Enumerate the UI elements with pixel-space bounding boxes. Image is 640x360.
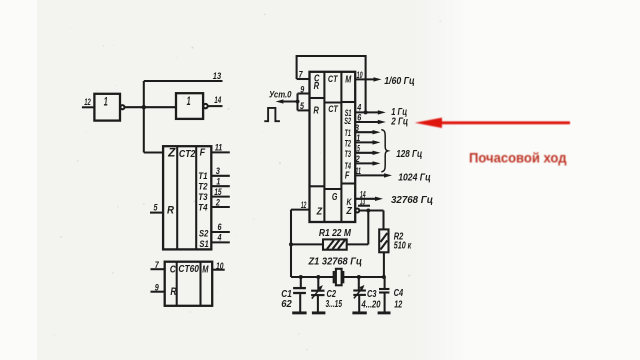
counter DD2 CT2 bbox=[163, 146, 211, 250]
wire bbox=[367, 211, 369, 245]
svg-text:12: 12 bbox=[84, 97, 91, 107]
svg-text:CT2: CT2 bbox=[179, 149, 196, 160]
svg-text:3: 3 bbox=[216, 165, 221, 176]
svg-text:Z: Z bbox=[346, 206, 353, 217]
svg-text:R: R bbox=[314, 81, 320, 92]
pin 4 output 1 Hz bbox=[355, 102, 407, 117]
resistor R2 bbox=[379, 229, 412, 277]
pin 12 bbox=[82, 97, 95, 107]
svg-text:T2: T2 bbox=[198, 182, 208, 193]
feedback wire bbox=[297, 56, 366, 112]
Ust.0 input arrow bbox=[269, 89, 300, 103]
svg-text:14: 14 bbox=[214, 95, 221, 105]
svg-text:CT60: CT60 bbox=[178, 264, 199, 275]
svg-text:T4: T4 bbox=[345, 161, 352, 171]
svg-text:T3: T3 bbox=[198, 192, 208, 203]
pin 2 output bbox=[355, 154, 380, 166]
wire bbox=[144, 151, 163, 153]
pin 15 output bbox=[354, 143, 380, 155]
svg-text:G: G bbox=[332, 192, 338, 203]
annotation red arrow bbox=[415, 118, 570, 128]
svg-text:6: 6 bbox=[218, 221, 223, 232]
pin 15 bbox=[211, 186, 230, 197]
svg-text:4...20: 4...20 bbox=[361, 299, 381, 310]
svg-text:M: M bbox=[202, 264, 209, 275]
pin 9 bbox=[298, 84, 310, 94]
svg-text:10: 10 bbox=[216, 260, 224, 271]
pin 7 bbox=[297, 70, 310, 80]
svg-text:7: 7 bbox=[155, 259, 160, 270]
svg-text:10: 10 bbox=[357, 70, 363, 80]
wire bbox=[291, 276, 334, 278]
pin 14 bbox=[208, 95, 223, 106]
svg-text:Z: Z bbox=[316, 207, 323, 218]
svg-text:Z1 32768 Гц: Z1 32768 Гц bbox=[308, 257, 363, 268]
pin 13 bbox=[144, 71, 223, 81]
svg-text:2: 2 bbox=[215, 197, 220, 208]
wire bbox=[125, 106, 177, 108]
inverter DD1.2 bbox=[176, 93, 203, 119]
svg-text:R: R bbox=[167, 205, 174, 217]
brace 128 Hz group bbox=[381, 130, 422, 172]
svg-text:C: C bbox=[170, 264, 176, 275]
svg-text:1024 Гц: 1024 Гц bbox=[398, 172, 431, 183]
svg-text:32768 Гц: 32768 Гц bbox=[391, 195, 433, 206]
svg-text:S2: S2 bbox=[344, 116, 351, 126]
svg-text:11: 11 bbox=[355, 166, 361, 176]
svg-text:4: 4 bbox=[356, 102, 361, 112]
pin 3 output bbox=[355, 123, 381, 135]
capacitor C1 bbox=[281, 277, 306, 313]
wire bbox=[143, 81, 145, 153]
pin 2 bbox=[211, 197, 230, 208]
pin 4 bbox=[211, 231, 230, 242]
svg-text:CT: CT bbox=[328, 104, 338, 115]
junction node bbox=[366, 209, 370, 213]
svg-text:CT: CT bbox=[328, 74, 338, 85]
pin 6 output 2 Hz bbox=[355, 112, 408, 127]
svg-text:1: 1 bbox=[216, 176, 220, 187]
pin 10 bbox=[212, 260, 225, 271]
wire bbox=[382, 211, 384, 230]
junction node bbox=[316, 275, 320, 279]
pin 6 bbox=[211, 221, 230, 232]
svg-text:R1 22 М: R1 22 М bbox=[319, 228, 351, 239]
pin 10 output 1/60 Hz bbox=[355, 70, 415, 87]
svg-text:6: 6 bbox=[357, 112, 362, 122]
svg-text:T3: T3 bbox=[345, 149, 352, 159]
inverter DD1.1 output bubble bbox=[120, 105, 124, 109]
svg-text:9: 9 bbox=[300, 84, 304, 94]
svg-text:1: 1 bbox=[104, 97, 108, 109]
svg-text:S1: S1 bbox=[199, 239, 208, 250]
svg-text:F: F bbox=[345, 170, 350, 181]
svg-text:4: 4 bbox=[217, 231, 222, 242]
pin 14 output 32768 Hz bbox=[355, 189, 433, 206]
svg-text:1: 1 bbox=[356, 133, 360, 143]
crystal Z1 bbox=[308, 257, 363, 286]
svg-text:12: 12 bbox=[301, 200, 307, 210]
wire bbox=[359, 209, 383, 211]
svg-text:3: 3 bbox=[355, 123, 359, 133]
svg-text:Уст.0: Уст.0 bbox=[269, 89, 292, 100]
svg-text:T1: T1 bbox=[345, 128, 352, 138]
wire bbox=[343, 276, 385, 278]
pin 1 output bbox=[355, 133, 380, 145]
svg-text:S2: S2 bbox=[199, 228, 209, 239]
svg-text:C3: C3 bbox=[367, 289, 377, 300]
svg-text:R: R bbox=[313, 106, 319, 117]
wire bbox=[296, 94, 298, 111]
wire bbox=[290, 210, 292, 277]
svg-text:15: 15 bbox=[354, 143, 360, 153]
pin 1 bbox=[211, 176, 230, 187]
svg-text:R: R bbox=[170, 286, 176, 298]
svg-text:T2: T2 bbox=[345, 138, 352, 148]
svg-text:F: F bbox=[200, 147, 206, 159]
svg-text:9: 9 bbox=[155, 282, 160, 293]
svg-text:11: 11 bbox=[215, 142, 223, 153]
pulse symbol bbox=[264, 108, 280, 121]
svg-text:3...15: 3...15 bbox=[326, 299, 343, 310]
svg-text:5: 5 bbox=[154, 202, 159, 213]
svg-text:5: 5 bbox=[300, 101, 304, 111]
capacitor C4 bbox=[378, 277, 404, 313]
svg-text:15: 15 bbox=[214, 186, 222, 197]
svg-text:13: 13 bbox=[213, 71, 221, 81]
junction node bbox=[357, 275, 361, 279]
junction node bbox=[289, 242, 293, 246]
pin 5 bbox=[298, 101, 310, 111]
inverter DD1.1 bbox=[94, 94, 120, 121]
inverter DD1.2 output bubble bbox=[203, 104, 207, 108]
trimmer capacitor C2 bbox=[311, 277, 342, 313]
svg-text:2 Гц: 2 Гц bbox=[390, 117, 408, 128]
svg-text:1/60 Гц: 1/60 Гц bbox=[384, 76, 415, 87]
pin 3 bbox=[211, 165, 230, 176]
counter DD3 K176IE12 bbox=[310, 72, 356, 222]
svg-text:Почасовой ход: Почасовой ход bbox=[469, 150, 567, 165]
junction node bbox=[382, 275, 386, 279]
svg-text:2: 2 bbox=[355, 154, 360, 164]
pin 5 bbox=[150, 202, 163, 213]
svg-text:62: 62 bbox=[281, 299, 292, 310]
trimmer capacitor C3 bbox=[352, 277, 380, 313]
svg-text:128 Гц: 128 Гц bbox=[396, 149, 422, 160]
pin 7 bbox=[151, 259, 165, 270]
pin 12 bbox=[291, 200, 311, 210]
pin 11 output 1024 Hz bbox=[355, 166, 431, 184]
pin 11 bbox=[211, 142, 230, 153]
resistor R1 bbox=[291, 228, 368, 250]
svg-text:T4: T4 bbox=[198, 203, 208, 214]
junction node bbox=[299, 275, 303, 279]
junction node bbox=[142, 105, 146, 109]
svg-text:510 к: 510 к bbox=[394, 241, 412, 252]
svg-text:1: 1 bbox=[187, 96, 191, 108]
svg-text:C4: C4 bbox=[394, 288, 404, 299]
svg-text:12: 12 bbox=[394, 300, 402, 311]
counter DD4 CT60 bbox=[165, 262, 213, 306]
svg-text:T1: T1 bbox=[198, 171, 207, 182]
svg-text:M: M bbox=[345, 74, 352, 85]
pin 9 bbox=[151, 282, 165, 293]
pin 13 with bubble bbox=[355, 196, 370, 212]
svg-text:Z: Z bbox=[167, 148, 176, 160]
